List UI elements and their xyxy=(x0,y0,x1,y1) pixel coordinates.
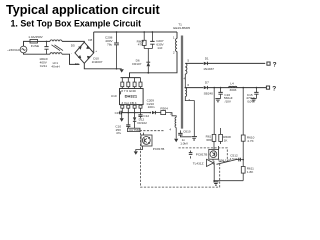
svg-text:TL431Z: TL431Z xyxy=(193,161,204,165)
transformer T1 primary xyxy=(173,23,190,55)
diode D7 xyxy=(204,81,214,96)
svg-text:3003: 3003 xyxy=(230,88,237,92)
svg-text:D7: D7 xyxy=(205,81,209,85)
dashed isolation boundary xyxy=(141,131,228,187)
snubber node join xyxy=(144,49,152,63)
capacitor C12 xyxy=(138,114,149,118)
optocoupler U2 PC817B primary side xyxy=(134,133,165,155)
secondary return wire xyxy=(185,97,194,137)
svg-text:3: 3 xyxy=(170,112,172,116)
transformer secondary top winding xyxy=(184,59,190,81)
svg-text:?: ? xyxy=(272,86,276,93)
resistor R61 xyxy=(206,134,216,149)
svg-text:PC817B: PC817B xyxy=(153,147,165,151)
feedback divider wire xyxy=(242,88,244,135)
svg-text:/10V: /10V xyxy=(225,100,232,104)
svg-text:+: + xyxy=(95,49,97,53)
capacitor C11 xyxy=(115,111,122,115)
svg-text:1: 1 xyxy=(173,36,175,40)
svg-text:C610: C610 xyxy=(183,130,191,134)
output1 wire xyxy=(185,62,203,64)
earth ground on return xyxy=(192,137,197,140)
resistor R608 xyxy=(219,128,231,149)
output2 connector xyxy=(266,86,276,93)
svg-text:FUSE: FUSE xyxy=(31,44,39,48)
svg-text:1.0kV: 1.0kV xyxy=(180,141,189,145)
transformer secondary bottom winding xyxy=(185,83,190,102)
node junction C211 top xyxy=(46,41,48,43)
diode D12 xyxy=(133,113,147,129)
AC source V1 xyxy=(7,46,27,53)
output1 connector xyxy=(267,62,277,69)
node snubber C xyxy=(152,31,154,33)
svg-text:100n: 100n xyxy=(148,105,155,109)
wire opto2 bottom to TL431 xyxy=(210,159,213,160)
wire to R61 xyxy=(213,88,215,135)
svg-text:DH321: DH321 xyxy=(125,94,138,99)
ground arrow primary xyxy=(120,69,124,72)
svg-text:1nF: 1nF xyxy=(157,46,162,50)
svg-text:~230VAC: ~230VAC xyxy=(7,48,21,52)
svg-text:8 7 6 GND: 8 7 6 GND xyxy=(121,89,136,93)
wire xyxy=(38,40,51,42)
svg-text:680: 680 xyxy=(206,138,211,142)
ground arrow pin1 xyxy=(121,113,123,119)
diode D6 xyxy=(132,59,150,73)
IC U10 DH321 xyxy=(111,78,143,115)
svg-text:L4: L4 xyxy=(230,81,234,85)
anode bus xyxy=(214,180,243,182)
svg-text:U10: U10 xyxy=(111,94,117,98)
svg-text:40mH: 40mH xyxy=(51,65,59,69)
transformer aux winding pins 3-4 xyxy=(169,112,176,139)
transformer core xyxy=(181,36,182,129)
wire choke to bridge xyxy=(62,40,84,43)
svg-text:1N4007: 1N4007 xyxy=(92,60,103,64)
svg-text:47K: 47K xyxy=(138,43,144,47)
wire AC bottom xyxy=(24,53,80,65)
svg-text:2: 2 xyxy=(173,51,175,55)
svg-text:1.8K: 1.8K xyxy=(247,170,254,174)
svg-text:1.0A/250V: 1.0A/250V xyxy=(28,35,43,39)
svg-text:6: 6 xyxy=(187,83,189,87)
svg-text:47u: 47u xyxy=(116,131,121,135)
capacitor C610 Y-cap xyxy=(178,130,191,146)
svg-text:1N4937: 1N4937 xyxy=(203,67,214,71)
svg-text:4.7K: 4.7K xyxy=(247,139,254,143)
svg-text:D8: D8 xyxy=(88,38,92,42)
svg-text:78u: 78u xyxy=(107,42,112,46)
output2 wire xyxy=(185,87,203,89)
bridge rectifier D5 D8 D9 D10 xyxy=(71,38,103,66)
svg-text:7: 7 xyxy=(188,98,190,102)
resistor R604 xyxy=(137,32,147,49)
TL431 U4 xyxy=(193,159,214,166)
svg-text:C211: C211 xyxy=(40,64,47,68)
resistor R504 xyxy=(160,107,176,118)
svg-text:EE19-BM05: EE19-BM05 xyxy=(173,26,190,30)
svg-text:D1: D1 xyxy=(205,56,209,60)
Vcc wire under IC xyxy=(122,112,151,114)
capacitor C211 xyxy=(39,41,48,68)
resistor R610 xyxy=(241,135,254,143)
svg-text:4.5nF: 4.5nF xyxy=(230,157,238,161)
ground arrow aux xyxy=(174,139,178,142)
svg-text:SB240: SB240 xyxy=(204,92,214,96)
minus bus xyxy=(84,63,121,69)
svg-text:/10V: /10V xyxy=(247,100,254,104)
boxed label OUT5M xyxy=(128,128,141,132)
diode D1 xyxy=(203,56,214,71)
svg-text:1K: 1K xyxy=(224,139,229,143)
svg-text:FR107: FR107 xyxy=(132,62,142,66)
svg-text:?: ? xyxy=(273,62,277,69)
svg-text:D9: D9 xyxy=(75,62,79,66)
svg-text:5: 5 xyxy=(187,59,189,63)
TL431 anode wire xyxy=(213,163,215,181)
fuse F1 xyxy=(28,35,43,48)
capacitor C208 xyxy=(105,32,119,69)
wire primary pin2 to drain bus xyxy=(121,52,178,78)
inductor L4 xyxy=(229,81,237,92)
wire AC top xyxy=(24,41,31,46)
svg-text:FR102: FR102 xyxy=(138,121,148,125)
capacitor C207 xyxy=(150,32,164,50)
optocoupler U3 PC817B secondary side xyxy=(196,149,219,159)
capacitor C15 xyxy=(246,88,258,104)
svg-text:-: - xyxy=(71,51,72,55)
transformer secondary link xyxy=(184,74,186,88)
svg-text:C11: C11 xyxy=(115,111,121,115)
svg-text:PC817B: PC817B xyxy=(196,152,208,156)
diode D11 on Vcc wire xyxy=(152,111,155,114)
HV rail xyxy=(94,31,177,33)
wire bridge+ up to rail xyxy=(93,32,95,53)
resistor R611 xyxy=(241,167,254,175)
svg-text:OUT5M: OUT5M xyxy=(129,128,140,132)
capacitor across opto2 xyxy=(189,151,193,159)
node C208 xyxy=(116,31,118,33)
svg-text:1. Set Top Box Example Circuit: 1. Set Top Box Example Circuit xyxy=(11,18,142,28)
capacitor C10 xyxy=(115,113,130,136)
svg-text:4: 4 xyxy=(169,128,171,132)
earth ground anode xyxy=(213,182,218,185)
svg-text:Typical application circuit: Typical application circuit xyxy=(6,3,161,17)
svg-text:D5: D5 xyxy=(71,43,75,47)
capacitor C16 xyxy=(215,88,232,104)
diagonal ref wire xyxy=(217,160,244,165)
node C208 bottom xyxy=(116,68,118,70)
junction drain/snubber xyxy=(147,72,149,74)
capacitor C512 xyxy=(230,154,241,162)
node snubber R xyxy=(143,31,145,33)
svg-text:3 Vcc FB 4: 3 Vcc FB 4 xyxy=(121,101,136,105)
svg-text:R504: R504 xyxy=(160,107,168,111)
choke LF1 xyxy=(50,40,63,69)
